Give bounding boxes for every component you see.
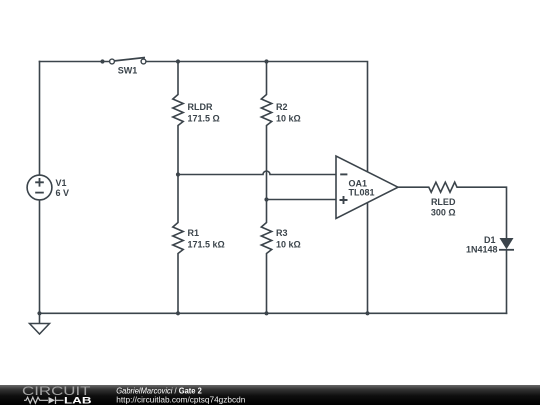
svg-text:RLED: RLED bbox=[431, 197, 456, 207]
svg-text:10 kΩ: 10 kΩ bbox=[276, 239, 301, 249]
svg-text:R1: R1 bbox=[188, 228, 200, 238]
svg-text:D1: D1 bbox=[484, 235, 496, 245]
svg-text:300 Ω: 300 Ω bbox=[431, 207, 456, 217]
svg-text:1N4148: 1N4148 bbox=[466, 245, 498, 255]
svg-text:RLDR: RLDR bbox=[188, 102, 213, 112]
svg-text:10 kΩ: 10 kΩ bbox=[276, 113, 301, 123]
svg-text:171.5 kΩ: 171.5 kΩ bbox=[188, 239, 225, 249]
svg-text:LAB: LAB bbox=[64, 396, 92, 405]
svg-text:http://circuitlab.com/cptsq74g: http://circuitlab.com/cptsq74gzbcdn bbox=[116, 395, 245, 405]
svg-text:6 V: 6 V bbox=[56, 188, 70, 198]
svg-text:R3: R3 bbox=[276, 228, 288, 238]
svg-text:SW1: SW1 bbox=[118, 65, 138, 75]
svg-text:V1: V1 bbox=[56, 178, 67, 188]
svg-text:R2: R2 bbox=[276, 102, 288, 112]
svg-text:TL081: TL081 bbox=[349, 188, 375, 198]
svg-text:171.5 Ω: 171.5 Ω bbox=[188, 113, 220, 123]
